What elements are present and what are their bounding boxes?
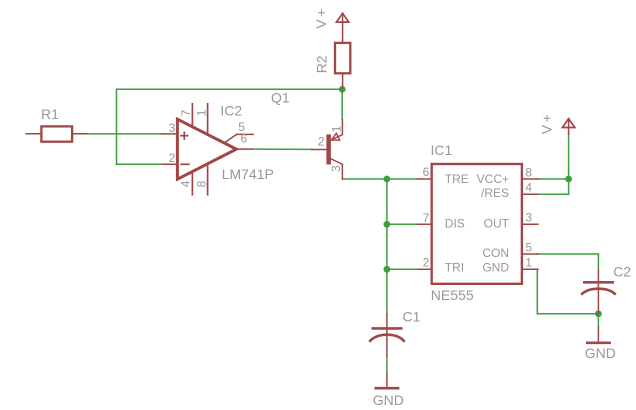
svg-text:R1: R1 [41, 106, 59, 122]
svg-text:1: 1 [329, 125, 343, 132]
svg-text:R2: R2 [313, 55, 329, 73]
svg-text:7: 7 [179, 109, 193, 116]
svg-text:V+: V+ [313, 6, 329, 29]
svg-text:GND: GND [585, 345, 616, 361]
svg-text:6: 6 [423, 165, 430, 179]
svg-text:2: 2 [318, 135, 325, 149]
svg-text:TRE: TRE [445, 172, 469, 186]
svg-text:8: 8 [525, 165, 532, 179]
svg-text:GND: GND [373, 392, 404, 408]
svg-text:DIS: DIS [445, 217, 465, 231]
svg-text:Q1: Q1 [271, 89, 290, 105]
svg-text:/RES: /RES [481, 186, 509, 200]
svg-text:5: 5 [525, 240, 532, 254]
svg-text:3: 3 [329, 165, 343, 172]
svg-text:3: 3 [169, 121, 176, 135]
svg-text:TRI: TRI [445, 261, 464, 275]
svg-text:3: 3 [525, 211, 532, 225]
svg-text:V+: V+ [538, 112, 554, 135]
svg-text:2: 2 [169, 151, 176, 165]
svg-text:2: 2 [423, 256, 430, 270]
svg-text:IC1: IC1 [431, 142, 453, 158]
svg-text:CON: CON [482, 246, 509, 260]
svg-text:OUT: OUT [484, 217, 510, 231]
svg-text:4: 4 [179, 180, 193, 187]
svg-text:LM741P: LM741P [222, 166, 274, 182]
svg-text:IC2: IC2 [220, 103, 242, 119]
svg-text:8: 8 [194, 180, 208, 187]
svg-text:1: 1 [194, 109, 208, 116]
svg-text:6: 6 [241, 132, 248, 146]
svg-text:VCC+: VCC+ [477, 172, 509, 186]
svg-text:NE555: NE555 [431, 287, 474, 303]
svg-text:4: 4 [525, 181, 532, 195]
svg-text:7: 7 [423, 211, 430, 225]
svg-text:C1: C1 [403, 309, 421, 325]
svg-text:GND: GND [482, 261, 509, 275]
svg-text:C2: C2 [613, 263, 631, 279]
svg-text:1: 1 [525, 256, 532, 270]
